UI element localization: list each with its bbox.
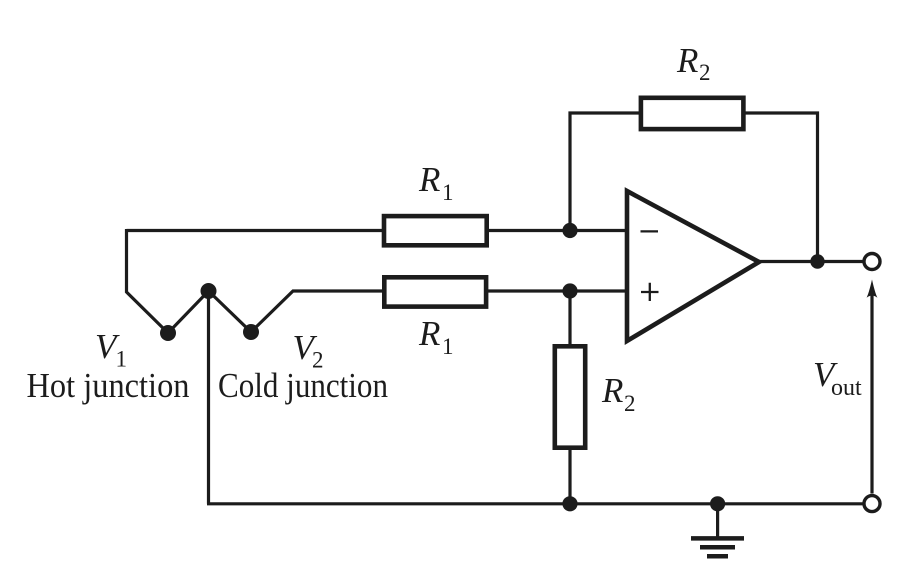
svg-text:1: 1 xyxy=(442,334,454,359)
svg-text:2: 2 xyxy=(699,60,711,85)
svg-text:R: R xyxy=(676,41,698,80)
svg-text:R: R xyxy=(418,314,440,353)
svg-text:1: 1 xyxy=(442,180,454,205)
svg-text:out: out xyxy=(831,375,862,401)
svg-text:Hot junction: Hot junction xyxy=(27,366,190,405)
svg-text:2: 2 xyxy=(624,391,636,416)
svg-text:R: R xyxy=(418,160,440,199)
svg-text:Cold junction: Cold junction xyxy=(218,366,388,405)
svg-text:R: R xyxy=(601,371,623,410)
